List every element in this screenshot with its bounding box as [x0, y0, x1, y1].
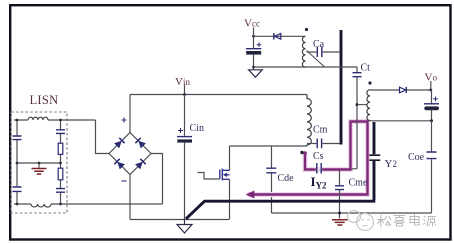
svg-text:Cde: Cde	[278, 173, 295, 184]
diode bridge top-right	[135, 138, 146, 149]
thick return path through Y2	[186, 122, 375, 219]
capacitor LISN left lower	[13, 187, 22, 191]
arrowhead IY2	[246, 191, 255, 199]
watermark mascot	[348, 211, 374, 231]
ground LISN earth symbol	[38, 163, 40, 168]
polarity dot auxiliary	[305, 28, 308, 31]
wire Cde branch	[271, 146, 273, 213]
inductor LISN top choke	[28, 117, 48, 120]
ground Vcc triangle	[249, 70, 263, 77]
ground Cme earth symbol	[332, 220, 348, 225]
svg-text:Cs: Cs	[313, 151, 324, 162]
wire LISN top line	[14, 119, 96, 121]
capacitor Ct	[353, 73, 362, 77]
diode output rectifier	[400, 87, 406, 93]
svg-text:Vin: Vin	[175, 76, 190, 88]
wire secondary top to Vo	[370, 89, 432, 91]
current path IY2 magenta line	[254, 122, 368, 195]
svg-text:Cm: Cm	[313, 125, 328, 136]
wire Cme branch	[339, 170, 341, 219]
wire drain node to primary winding bottom	[230, 145, 308, 147]
node dot Ct junction	[356, 103, 359, 106]
svg-text:Y2: Y2	[385, 158, 397, 170]
magenta halo of IY2 loop	[248, 122, 368, 195]
wire Cm branch	[307, 143, 340, 145]
capacitor Vcc electrolytic	[246, 48, 261, 50]
capacitor Cde	[266, 168, 276, 173]
svg-text:Cin: Cin	[190, 123, 204, 134]
wire Cin branch lower	[184, 143, 186, 220]
wire LISN right branch	[60, 120, 62, 204]
diode bridge top-left	[114, 138, 125, 149]
minus mark bridge negative output	[122, 180, 127, 182]
polarity dot secondary	[368, 81, 371, 84]
plus mark bridge positive output	[122, 118, 127, 123]
wire LISN return to bridge right vertex	[151, 154, 163, 205]
winding secondary	[367, 90, 370, 121]
capacitor Ca	[317, 47, 322, 57]
svg-text:Vcc: Vcc	[244, 17, 260, 29]
wire Vcc cap to ground	[253, 36, 255, 69]
wire Vin rail	[130, 94, 307, 96]
wire secondary return	[370, 120, 432, 122]
capacitor Y2	[369, 155, 380, 160]
wire Cin branch upper	[184, 95, 186, 136]
capacitor LISN right lower	[56, 189, 65, 193]
wire MOSFET source to ground rail	[229, 179, 231, 219]
capacitor Coe	[427, 152, 437, 159]
wire Ct branch lower	[351, 77, 357, 168]
plus mark Vcc cap	[257, 42, 262, 47]
svg-text:Ca: Ca	[313, 39, 325, 50]
diode bridge bottom-left	[114, 159, 125, 170]
wire output cap to return	[431, 110, 433, 121]
polarity dot primary	[300, 151, 303, 154]
svg-text:Coe: Coe	[408, 152, 425, 163]
wire bridge top to Vin rail	[129, 95, 131, 133]
wire LISN middle line	[17, 162, 61, 164]
svg-text:LISN: LISN	[30, 93, 59, 107]
wire Ct junction to secondary winding	[357, 104, 367, 106]
LISN enclosure dashed box	[11, 112, 67, 213]
watermark text 松哥电源	[378, 214, 437, 227]
wire Coe branch lower to earth rail	[431, 159, 433, 213]
winding auxiliary	[302, 36, 305, 67]
node Vcc tick	[253, 28, 255, 37]
capacitor LISN right upper	[56, 130, 65, 134]
winding primary	[307, 95, 311, 147]
transformer core bar	[340, 30, 343, 145]
wire MOSFET drain	[229, 146, 231, 170]
wire Vo node to output cap	[431, 90, 433, 103]
plus mark output cap	[433, 97, 438, 102]
resistor LISN right lower	[58, 168, 63, 180]
node dot output return junction	[430, 119, 433, 122]
node Vo tick	[430, 81, 432, 90]
bridge rectifier diamond	[109, 133, 151, 175]
wire bridge bottom to ground rail	[129, 175, 131, 220]
plus mark Cin	[178, 128, 183, 133]
transistor Q1 MOSFET	[220, 169, 230, 181]
wire LISN bottom line	[14, 203, 163, 205]
svg-text:IY2: IY2	[311, 174, 328, 191]
wire ground rail primary side	[130, 219, 229, 221]
wire gate drive stub	[198, 173, 220, 180]
wire Ca branch	[307, 51, 340, 53]
start blob IY2	[303, 151, 307, 155]
svg-text:Ct: Ct	[361, 63, 371, 74]
node dots LISN	[16, 119, 19, 122]
capacitor output electrolytic	[424, 103, 439, 105]
capacitor LISN left upper	[13, 136, 22, 140]
capacitor Cin electrolytic	[177, 136, 192, 138]
inductor LISN bottom choke	[31, 204, 51, 207]
resistor LISN right upper	[58, 143, 63, 154]
wire LISN to bridge left vertex	[96, 120, 110, 154]
diode bridge bottom-right	[135, 159, 146, 170]
ground primary power ground triangle	[184, 220, 186, 225]
node dot Cme earth junction	[338, 212, 341, 215]
wire Vcc to aux winding	[254, 35, 306, 37]
diode Vcc rectifier	[275, 33, 281, 39]
wire aux bottom to Ct branch	[254, 66, 358, 68]
wire LISN left branch	[16, 120, 18, 204]
svg-text:Cme: Cme	[349, 178, 368, 189]
capacitor Cme	[335, 186, 344, 190]
wire aux winding diagonal	[307, 51, 325, 67]
capacitor Cm	[317, 139, 321, 149]
wire Coe branch upper	[431, 121, 433, 152]
capacitor Cs	[317, 163, 321, 174]
node Vin tick	[184, 85, 186, 95]
wire Ct branch upper	[356, 67, 358, 72]
wire earth rail secondary side	[272, 212, 432, 214]
